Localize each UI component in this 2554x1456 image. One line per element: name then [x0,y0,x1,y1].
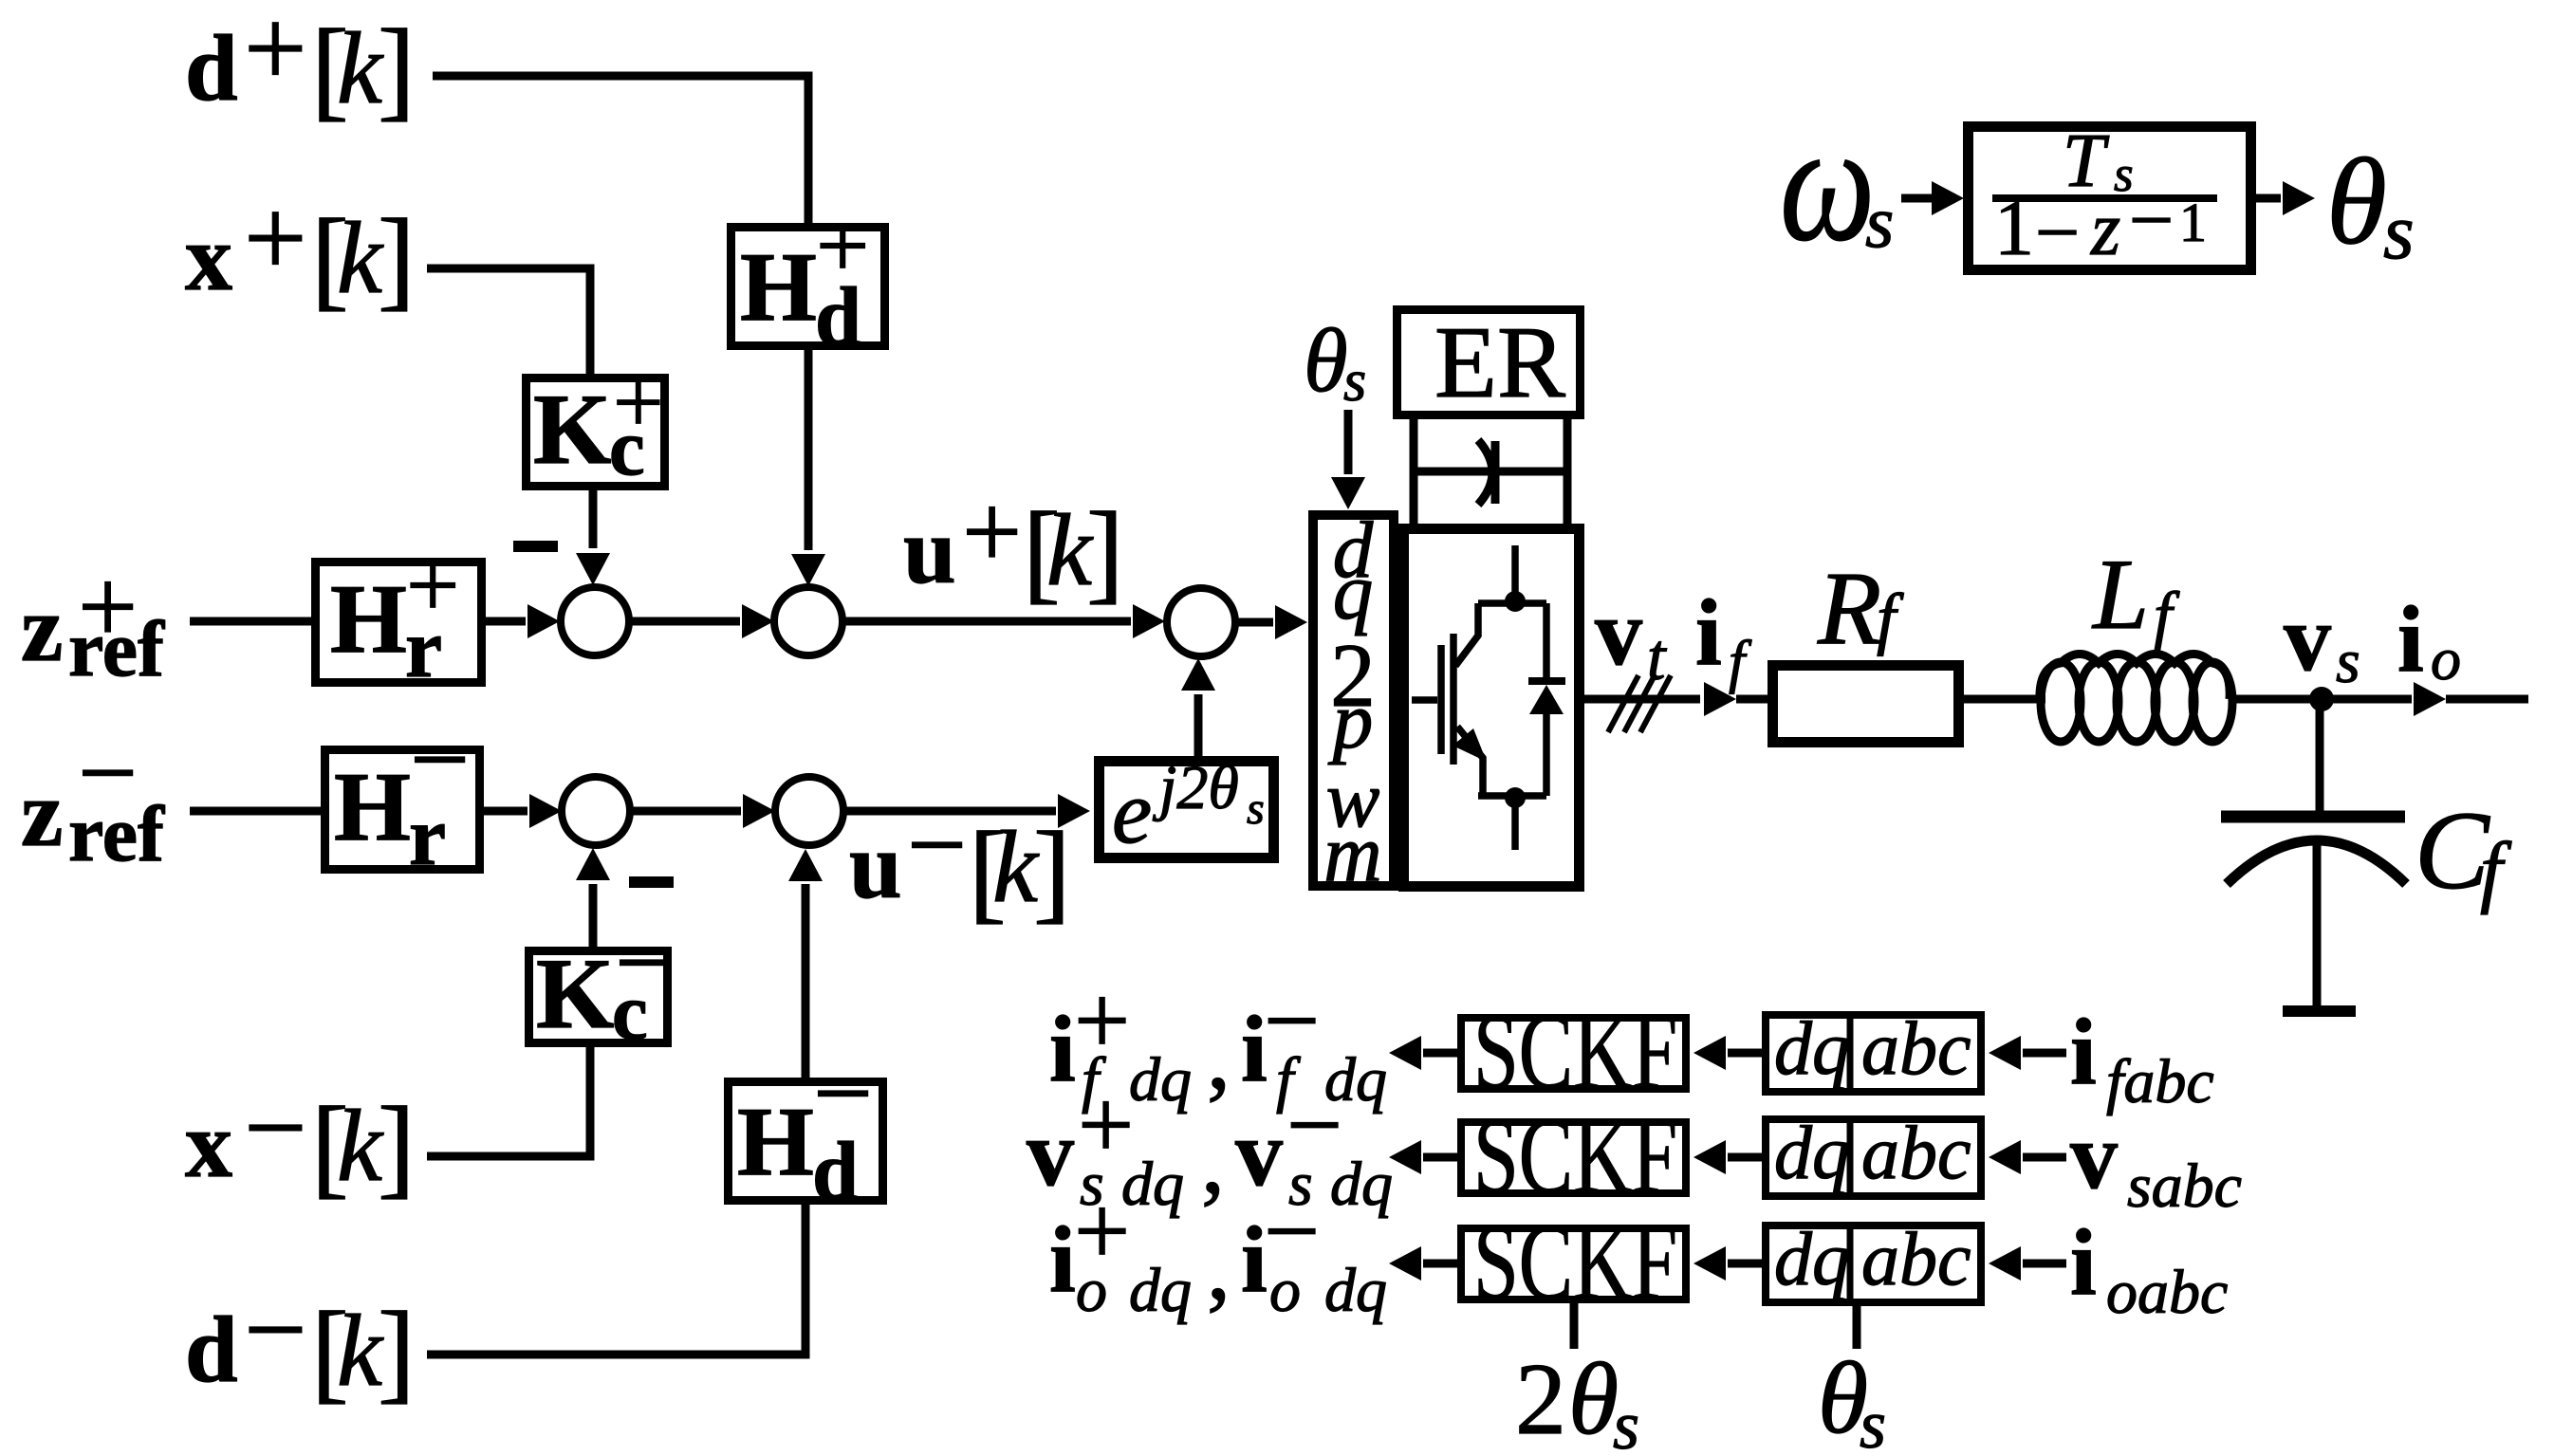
IGBT emitter wire with arrow [1457,727,1483,793]
wire to Rf [1736,695,1767,704]
svg-text:K: K [536,938,614,1049]
arrow if on wire [1704,682,1736,716]
ground [2283,1005,2356,1017]
node vsabc label [2070,1103,2242,1221]
svg-text:t: t [1647,621,1667,694]
wire Hr- to sum junction S4 [480,807,527,816]
node vt label [1595,580,1667,694]
inductor Lf [2040,654,2232,743]
svg-text:m: m [1323,809,1381,898]
node if label [1695,580,1752,694]
wire dq/abc to SCKF row1 [1728,1049,1762,1058]
node zref- input label [21,714,165,878]
block SCKF row3 [1461,1228,1686,1299]
IGBT gate bar left [1437,645,1445,754]
svg-text:SCKF: SCKF [1473,991,1677,1113]
wire dq/abc to SCKF row3 [1728,1260,1762,1268]
node io label [2397,586,2461,692]
block integrator Ts/(1-z^-1) [1969,127,2251,270]
node vs label [2284,585,2360,696]
wire SCKF row2 output [1423,1153,1457,1162]
wire S1 to S2 [629,617,740,626]
svg-text:H: H [330,564,407,673]
node omega_s label [1780,89,1894,276]
node u+[k] label [903,473,1124,614]
dc link capacitor straight plate [1491,441,1500,504]
IGBT top lead [1511,545,1519,597]
node ifabc label [2070,999,2214,1116]
wire S4 to S5 [630,807,741,816]
svg-text:i: i [1695,580,1722,685]
svg-text:H: H [740,232,817,341]
svg-text:u: u [903,498,956,603]
svg-text:dq: dq [1330,1150,1393,1219]
svg-text:,: , [1201,1108,1225,1213]
node x+[k] input label [185,175,416,321]
wire vs to output with io arrow [2322,695,2412,704]
svg-text:dq: dq [1324,1256,1387,1325]
block Hr+ [316,562,482,683]
node d-[k] input label [185,1267,416,1413]
block Hd+ [731,228,885,346]
svg-text:+: + [406,532,459,637]
svg-text:ω: ω [1780,89,1875,276]
node theta_s label at dq2pwm [1304,310,1366,414]
minus sign at S4 [629,876,674,888]
integrator fraction bar [1992,194,2217,202]
wire exp block to S3 [1194,694,1203,756]
block ER [1397,310,1581,415]
svg-text:+: + [244,175,307,300]
diode cathode bar [1528,677,1565,685]
converter block [1404,529,1580,887]
wire SCKF row3 to 2theta_s [1570,1303,1579,1349]
node ioabc label [2070,1209,2228,1327]
svg-text:i: i [2397,586,2424,691]
svg-text:e: e [1112,762,1152,862]
IGBT top bar wire [1478,599,1546,607]
svg-text:s: s [1343,349,1366,414]
svg-text:dq: dq [1129,1256,1192,1325]
svg-text:i: i [1049,1207,1076,1312]
svg-text:j2θ: j2θ [1152,753,1239,822]
summing junction S4 [562,777,630,845]
wire Hd+ to sum junction S2 [805,350,813,550]
svg-text:−: − [813,1035,873,1152]
wire dc link bus [1414,468,1567,476]
wire SCKF row1 output [1423,1049,1457,1058]
svg-text:abc: abc [1861,1007,1971,1091]
svg-text:s: s [1247,783,1265,834]
wire Hd- to sum junction S5 [802,884,810,1078]
node theta_s bottom label [1818,1342,1886,1456]
svg-text:+: + [962,473,1022,591]
svg-text:−: − [244,1065,307,1189]
svg-text:L: L [2091,539,2149,650]
dc link capacitor curved plate [1478,440,1492,505]
svg-text:i: i [1049,996,1076,1101]
svg-text:ER: ER [1434,306,1565,419]
svg-text:s: s [2383,188,2415,276]
IGBT bottom bar wire [1478,792,1546,800]
wire ioabc to dq/abc row3 [2023,1260,2066,1268]
wire theta_s to dq2pwm [1344,410,1353,474]
block Hr- [325,750,480,870]
wire ER to converter dc link left rail [1410,419,1418,524]
svg-text:o: o [1269,1256,1301,1325]
wire ifabc to dq/abc row1 [2023,1049,2066,1058]
svg-text:i: i [2070,999,2097,1104]
svg-text:]: ] [1086,488,1124,614]
node ifdq+- output label row1 [1049,965,1387,1115]
svg-text:v: v [1027,1100,1074,1206]
svg-text:+: + [244,0,307,110]
node u-[k] label [849,786,1071,933]
svg-text:x: x [185,1092,232,1197]
block exp(j2 theta_s) [1100,762,1274,858]
svg-text:s: s [2336,627,2360,696]
svg-text:]: ] [378,1288,416,1413]
svg-text:z: z [21,576,63,681]
wire omega_s to integrator [1901,194,1935,203]
capacitor Cf curved plate [2227,840,2406,884]
svg-text:dq: dq [1129,1045,1192,1115]
svg-text:dq: dq [1121,1150,1184,1219]
wire zref+ to Hr+ [190,617,315,626]
svg-text:o: o [1076,1256,1107,1325]
wire S5 to exp block with u-[k] label [843,807,1056,816]
wire S2 to S3 with u+[k] label [842,617,1131,626]
svg-text:+: + [78,548,138,666]
svg-text:i: i [2070,1209,2097,1315]
svg-text:s: s [1860,1387,1886,1456]
svg-text:dq: dq [1774,1007,1850,1091]
block Kc+ [527,378,665,487]
wire Kc+ to sum junction S1 [589,490,598,548]
block Kc- [529,951,668,1043]
svg-text:z: z [21,761,63,866]
wire SCKF row3 output [1423,1260,1457,1268]
svg-text:,: , [1207,1214,1231,1319]
svg-text:abc: abc [1861,1218,1971,1301]
svg-text:s: s [1613,1388,1639,1456]
svg-text:p: p [1328,676,1374,765]
svg-text:−: − [907,786,967,904]
IGBT top junction dot [1505,591,1526,612]
node 2theta_s label [1515,1343,1639,1456]
svg-text:H: H [737,1087,814,1196]
svg-text:u: u [849,813,902,918]
block dq/abc row2 [1766,1119,1981,1196]
svg-text:dq: dq [1774,1218,1850,1301]
svg-text:d: d [185,15,238,120]
wire zref- to Hr- [190,807,324,816]
wire vs node down to Cf [2316,699,2324,811]
svg-text:s: s [1865,180,1894,263]
svg-text:v: v [1595,580,1642,685]
wire integrator to theta_s [2256,194,2281,203]
IGBT bottom junction dot [1505,787,1526,808]
svg-text:−: − [244,1267,307,1391]
resistor Rf [1773,666,1959,743]
svg-text:x: x [185,205,232,310]
summing junction S3 [1167,588,1235,656]
svg-text:]: ] [378,6,416,131]
block SCKF row2 [1461,1122,1686,1193]
node theta_s output label [2326,134,2415,276]
svg-text:+: + [816,193,869,298]
svg-text:θ: θ [2326,134,2387,270]
svg-text:−: − [78,714,138,832]
svg-text:oabc: oabc [2106,1258,2228,1327]
node vsdq+- output label row2 [1027,1069,1393,1219]
svg-text:abc: abc [1861,1112,1971,1195]
block SCKF row1 [1461,1018,1686,1089]
node iodq+- output label row3 [1049,1175,1387,1325]
svg-text:2: 2 [1515,1343,1566,1456]
wire Kc- to sum junction S4 [589,884,598,947]
svg-text:d: d [185,1297,238,1402]
summing junction S2 [774,587,842,655]
svg-text:o: o [2431,625,2461,692]
wire d+[k] to Hd+ [433,76,808,224]
svg-text:K: K [533,374,611,485]
wire dq/abc to SCKF row2 [1728,1153,1762,1162]
svg-text:,: , [1207,1004,1231,1109]
node zref+ input label [21,548,165,693]
svg-text:θ: θ [1304,310,1348,411]
block dq/abc row3 [1766,1226,1981,1302]
summing junction S5 [775,777,843,845]
node Cf label [2415,788,2512,915]
wire converter output vt [1584,695,1700,704]
svg-text:v: v [2070,1103,2118,1208]
svg-text:fabc: fabc [2106,1047,2214,1116]
block Hd- [729,1082,883,1201]
svg-text:]: ] [1033,808,1071,933]
wire dq/abc row3 to theta_s [1853,1306,1861,1349]
svg-text:SCKF: SCKF [1473,1096,1677,1217]
node x-[k] input label [185,1065,416,1208]
svg-text:H: H [334,752,411,861]
svg-text:−: − [410,701,470,819]
three-phase slash marks [1608,675,1671,732]
minus sign at S1 [513,541,558,552]
block dq/abc row1 [1766,1015,1981,1092]
IGBT gate lead [1412,696,1437,704]
summing junction S1 [561,587,629,655]
wire x+[k] to Kc+ [427,268,590,375]
wire d-[k] to Hd- [427,1205,805,1355]
svg-text:]: ] [378,195,416,321]
svg-text:C: C [2415,788,2490,912]
svg-text:v: v [2284,585,2331,691]
svg-text:R: R [1817,550,1881,666]
wire Lf to vs node [2230,695,2322,704]
wire Rf to Lf [1964,695,2045,704]
svg-text:dq: dq [1774,1112,1850,1195]
svg-text:−: − [2129,176,2174,265]
svg-text:θ: θ [1568,1343,1619,1456]
wire ER to converter dc link right rail [1564,419,1572,524]
wire S3 to dq2pwm [1235,618,1273,627]
svg-text:sabc: sabc [2127,1152,2242,1221]
node d+[k] input label [185,0,416,131]
svg-text:+: + [613,352,664,452]
diode triangle [1529,685,1564,714]
wire x-[k] to Kc- [427,1047,590,1156]
capacitor Cf straight plate [2221,811,2405,823]
wire Cf to ground [2313,844,2322,1005]
IGBT bottom lead [1511,800,1519,850]
node vs junction dot [2309,687,2334,711]
svg-text:−: − [615,904,675,1022]
svg-text:q: q [1333,547,1374,636]
block dq2pwm [1313,515,1394,886]
IGBT collector wire [1455,603,1478,666]
wire vsabc to dq/abc row2 [2023,1153,2066,1162]
diode wire [1543,603,1550,796]
svg-text:]: ] [378,1083,416,1208]
wire Hr+ to sum junction S1 [482,617,526,626]
IGBT gate bar right [1450,634,1457,765]
